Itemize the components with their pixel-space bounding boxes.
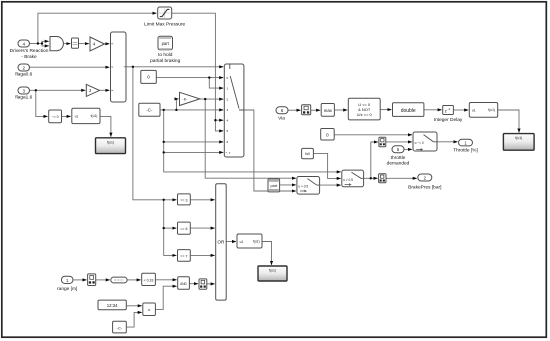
junction: [163, 199, 165, 201]
constant -C- bottom: [113, 321, 127, 333]
svg-text:AND: AND: [180, 282, 187, 286]
svg-text:f(u1): f(u1): [91, 114, 98, 118]
inport 3 flaga1.6: [15, 87, 32, 101]
svg-text:u ~= 0: u ~= 0: [415, 141, 424, 145]
wire: [164, 227, 177, 229]
svg-text:Via: Via: [278, 115, 285, 121]
junction: [214, 119, 216, 121]
switch A u > 0.5: [297, 177, 320, 195]
svg-text:u1: u1: [75, 115, 79, 119]
wire: [42, 44, 49, 46]
outport 1 Throttle [%]: [453, 139, 478, 153]
wire: [190, 254, 214, 256]
wire: [172, 13, 224, 120]
wire: [79, 43, 89, 45]
wire: [404, 148, 412, 150]
wire: [262, 242, 272, 265]
wire: [105, 43, 110, 45]
wire: [288, 109, 301, 111]
data type conversion double: [393, 103, 424, 117]
wire: [30, 89, 86, 91]
wire: [207, 283, 215, 285]
wire: [386, 177, 417, 179]
fcn block after OR: [237, 234, 262, 248]
equality block == 3: [178, 194, 191, 205]
svg-text:0: 0: [147, 75, 150, 80]
gray model block f(u1) bottom: [258, 266, 287, 281]
wire: [30, 43, 43, 45]
wire: [190, 199, 214, 201]
svg-text:u > 0.5: u > 0.5: [343, 178, 353, 182]
svg-text:full: full: [305, 152, 310, 156]
small convert block b1: [379, 137, 386, 146]
svg-text:-C-: -C-: [146, 108, 153, 113]
wire: [155, 279, 176, 281]
gain 4: [90, 37, 105, 51]
wire: [133, 67, 176, 200]
logic block U <= 0 & NOT U/z <= 0: [348, 98, 380, 120]
wire: [215, 120, 223, 131]
svg-text:double: double: [401, 108, 416, 114]
svg-text:4: 4: [227, 119, 229, 123]
svg-text:>: >: [148, 308, 151, 313]
svg-text:12:34: 12:34: [107, 303, 118, 308]
equality block == 6: [178, 222, 191, 234]
wire: [320, 184, 341, 186]
junction: [204, 98, 206, 100]
minmax block max: [321, 104, 334, 117]
svg-text:max: max: [324, 108, 333, 113]
junction: [163, 109, 165, 111]
wire: [244, 110, 296, 191]
junction: [35, 89, 37, 91]
svg-text:f(u1): f(u1): [253, 239, 260, 243]
svg-text:partial braking: partial braking: [150, 58, 180, 64]
switch C u ~= 0: [413, 132, 437, 151]
wire: [63, 43, 70, 45]
fcn block f(u1): [72, 108, 100, 123]
svg-text:-K-: -K-: [183, 97, 189, 101]
wire: [127, 279, 141, 281]
svg-text:1: 1: [227, 86, 229, 90]
junction: [132, 66, 134, 68]
wire: [176, 99, 178, 110]
svg-text:5: 5: [227, 129, 229, 133]
svg-text:-C-: -C-: [117, 325, 123, 330]
wire: [100, 89, 110, 91]
AND gate: [50, 37, 63, 51]
switch B u > 0.5: [342, 170, 364, 187]
svg-text:6: 6: [227, 140, 229, 144]
svg-text:f(u1): f(u1): [269, 268, 276, 272]
wire: [126, 312, 141, 327]
from tag part: [268, 179, 280, 192]
wire: [498, 110, 519, 133]
signal spec lozenge: [111, 277, 127, 283]
compare to zero ~= 0: [49, 110, 62, 123]
junction: [163, 151, 165, 153]
gain -K-: [180, 92, 200, 105]
svg-text:Drivers's Reaction: Drivers's Reaction: [10, 48, 49, 54]
multiport switch: [224, 64, 244, 157]
wire: [30, 66, 110, 68]
svg-text:f(u1): f(u1): [488, 108, 495, 112]
wire: [371, 142, 378, 178]
fcn block f(u1) right: [469, 103, 497, 118]
constant 0 right: [321, 129, 335, 141]
svg-text:throttle: throttle: [391, 155, 406, 161]
gray model block f(u1) right: [503, 134, 534, 151]
relational operator >: [143, 303, 156, 316]
svg-text:== 6: == 6: [180, 227, 187, 231]
wire: [155, 286, 176, 309]
wire: [386, 141, 412, 143]
wire: [334, 109, 347, 111]
junction: [175, 109, 177, 111]
junction: [208, 76, 210, 78]
svg-text:demanded: demanded: [387, 161, 410, 167]
svg-text:flaga0.6: flaga0.6: [15, 72, 32, 78]
inport 5 throttle demanded: [387, 146, 410, 167]
svg-text:f(u1): f(u1): [107, 140, 114, 144]
wire: [156, 77, 223, 79]
svg-text:Integer Delay: Integer Delay: [434, 117, 463, 123]
scope/model block f(u1) gray: [96, 138, 126, 154]
wire: [190, 227, 214, 229]
svg-text:== 3: == 3: [180, 198, 187, 202]
small convert block after AND: [199, 279, 207, 289]
svg-text:flaga1.6: flaga1.6: [15, 95, 32, 101]
inport 1 range [m]: [57, 276, 77, 292]
svg-text:== 7: == 7: [180, 254, 187, 258]
gain 2: [86, 84, 99, 96]
svg-text:part: part: [271, 184, 278, 188]
svg-text:f(u1): f(u1): [515, 136, 522, 140]
svg-text:3: 3: [227, 108, 229, 112]
svg-text:BrakePres [bar]: BrakePres [bar]: [408, 184, 441, 190]
junction: [163, 141, 165, 143]
svg-text:Throttle [%]: Throttle [%]: [453, 148, 478, 154]
svg-text:u1: u1: [240, 240, 244, 244]
wire: [200, 98, 223, 100]
wire: [164, 151, 224, 153]
saturation Limit Max Pressure: [144, 7, 185, 28]
inport 2 flaga0.6: [15, 64, 32, 78]
small convert block after Via: [302, 105, 311, 115]
svg-text:OR: OR: [217, 239, 225, 244]
small convert block b2: [379, 174, 386, 183]
svg-text:Limit Max Pressure: Limit Max Pressure: [144, 22, 185, 28]
wire: [334, 134, 412, 136]
wire: [36, 90, 48, 116]
equality block == 7: [178, 250, 191, 262]
wire: [100, 116, 111, 136]
constant 0: [141, 70, 157, 83]
wire: [62, 115, 71, 117]
wire: [364, 177, 378, 179]
wire: [424, 109, 442, 111]
mux: [111, 32, 127, 102]
wire: [437, 141, 457, 143]
wire: [313, 153, 340, 178]
svg-text:range [m]: range [m]: [57, 286, 77, 292]
data type conversion block: [72, 38, 79, 48]
outport 2 BrakePres [bar]: [408, 174, 441, 190]
from tag full: [302, 148, 314, 158]
svg-text:- Brake: - Brake: [21, 54, 37, 60]
constant -C-: [139, 103, 160, 116]
junction: [370, 177, 372, 179]
integer delay block: [434, 106, 463, 123]
wire: [164, 141, 224, 143]
wire: [453, 109, 468, 111]
logical OR block: [216, 184, 227, 300]
inport 6 Via: [276, 107, 288, 122]
wire: [126, 66, 223, 68]
wire: [38, 13, 156, 43]
small convert block after range: [88, 274, 96, 286]
wire: [164, 110, 341, 172]
svg-text:to hold: to hold: [158, 52, 173, 58]
svg-text:~= 0: ~= 0: [52, 115, 59, 119]
logical AND block: [178, 277, 190, 290]
svg-text:u > 0.5: u > 0.5: [298, 185, 308, 189]
junction: [41, 42, 43, 44]
wire: [164, 200, 177, 256]
goto tag part (to hold partial braking): [150, 36, 180, 64]
wire: [73, 279, 87, 281]
wire: [311, 109, 320, 111]
wire: [126, 305, 141, 307]
svg-text:0: 0: [227, 76, 229, 80]
junction: [37, 42, 39, 44]
wire: [205, 99, 296, 178]
wire: [189, 283, 198, 285]
compare block < 0.33: [142, 273, 156, 285]
junction: [163, 227, 165, 229]
svg-text:2: 2: [227, 97, 229, 101]
wire: [280, 184, 296, 186]
svg-text:u1: u1: [472, 109, 476, 113]
wire: [42, 41, 49, 43]
svg-text:part: part: [162, 41, 170, 46]
wire: [380, 109, 391, 111]
wire: [96, 279, 110, 281]
svg-text:z: z: [445, 108, 447, 113]
wire: [160, 109, 223, 111]
svg-text:-2: -2: [448, 107, 451, 111]
inport 4 Drivers's Reaction - Brake: [10, 40, 49, 60]
svg-text:*, 7: *, 7: [226, 151, 231, 155]
wire: [209, 78, 223, 89]
svg-text:< 0.33: < 0.33: [144, 278, 154, 282]
digital clock 12:34: [98, 300, 126, 310]
wire: [226, 241, 236, 243]
svg-text:U/z <= 0: U/z <= 0: [357, 112, 373, 117]
